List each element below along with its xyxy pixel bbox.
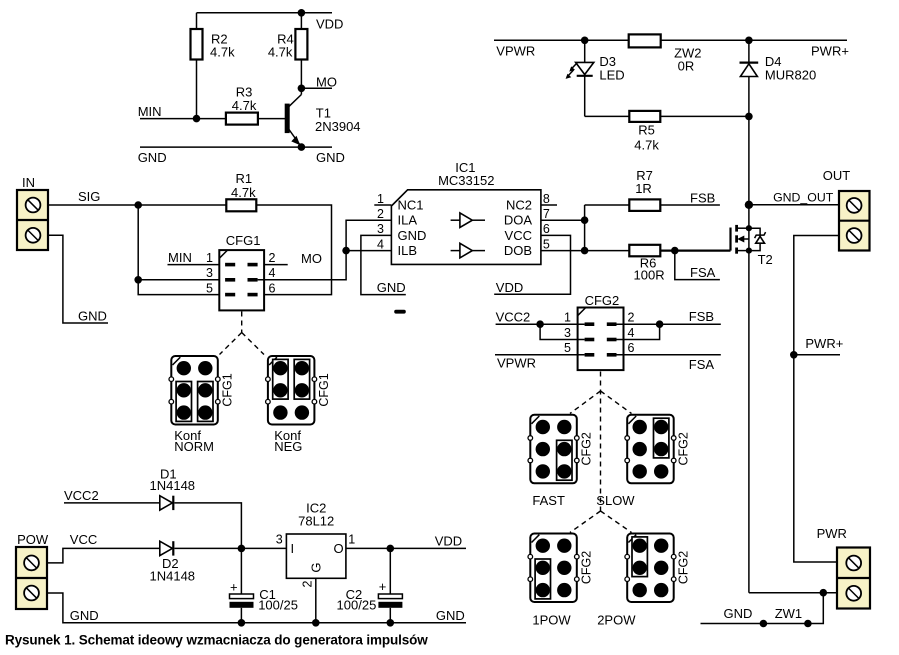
svg-text:1N4148: 1N4148	[150, 478, 196, 493]
svg-text:FSA: FSA	[689, 357, 715, 372]
svg-text:4.7k: 4.7k	[210, 45, 235, 60]
jumper diagram Konf NEG (CFG1)	[266, 356, 332, 425]
svg-text:CFG2: CFG2	[580, 551, 594, 584]
svg-text:CFG2: CFG2	[676, 551, 690, 584]
svg-text:FSA: FSA	[690, 265, 716, 280]
svg-text:CFG2: CFG2	[585, 293, 620, 308]
svg-text:0R: 0R	[678, 59, 695, 74]
pin CFG2 bars row1	[585, 322, 595, 326]
svg-text:MC33152: MC33152	[438, 173, 494, 188]
svg-text:1: 1	[564, 311, 571, 325]
svg-text:1R: 1R	[635, 181, 652, 196]
wire IN pin2 to GND stub	[48, 235, 108, 323]
resistor R6	[629, 245, 660, 256]
svg-text:78L12: 78L12	[298, 514, 334, 529]
connector IN	[17, 175, 48, 250]
node ILB junction	[342, 247, 350, 255]
wire dashed CFG2 selector upper	[600, 372, 602, 512]
jumper diagram 1POW (CFG2)	[528, 534, 594, 603]
svg-text:CFG2: CFG2	[580, 432, 594, 465]
node C1 junction	[238, 545, 246, 553]
wire R3 to base	[258, 118, 286, 120]
ground minus mark	[394, 310, 406, 314]
svg-text:VCC2: VCC2	[496, 310, 531, 325]
svg-text:4.7k: 4.7k	[232, 98, 257, 113]
jumper diagram SLOW (CFG2)	[625, 415, 691, 484]
svg-text:CFG1: CFG1	[317, 373, 331, 406]
svg-text:2: 2	[377, 207, 384, 221]
svg-text:PWR: PWR	[817, 526, 847, 541]
node ZW1 end A	[760, 620, 768, 628]
wire IC2 output VDD	[346, 547, 466, 549]
svg-text:DOB: DOB	[504, 243, 532, 258]
svg-text:VPWR: VPWR	[496, 44, 535, 59]
svg-text:G: G	[308, 562, 323, 572]
svg-text:6: 6	[269, 281, 276, 295]
node PWR- junction	[820, 589, 828, 597]
svg-text:DOA: DOA	[504, 213, 533, 228]
svg-text:5: 5	[206, 281, 213, 295]
pin CFG2 bars row2	[585, 338, 595, 342]
jumper diagram 2POW (CFG2)	[625, 534, 691, 603]
wire OUT pin2 PWR+	[794, 236, 839, 563]
svg-text:GND_OUT: GND_OUT	[773, 191, 834, 205]
svg-text:8: 8	[543, 192, 550, 206]
svg-text:MIN: MIN	[168, 250, 192, 265]
wire R5 row	[585, 115, 630, 117]
node PWR+ junction	[790, 351, 798, 359]
svg-text:4: 4	[269, 266, 276, 280]
wire D1 to C1 node	[175, 503, 242, 549]
wire R5 to D4	[660, 115, 749, 117]
wire FSB from pin2	[617, 323, 721, 325]
diode D4 MUR820	[740, 40, 817, 116]
node C2 gnd junction	[387, 619, 395, 627]
wire SIG row	[48, 204, 226, 206]
svg-text:NORM: NORM	[174, 439, 214, 454]
svg-text:2: 2	[269, 251, 276, 265]
svg-text:1N4148: 1N4148	[150, 568, 196, 583]
svg-text:ZW1: ZW1	[775, 606, 802, 621]
wire ZW1 gnd link	[701, 593, 824, 624]
regulator IC2 78L12	[286, 501, 346, 579]
op-amp IC1 body	[391, 190, 541, 265]
svg-text:2: 2	[301, 580, 315, 587]
connector POW	[16, 532, 49, 609]
resistor R4	[295, 29, 307, 60]
wire output join vertical	[584, 205, 586, 251]
diode D2 1N4148	[150, 541, 196, 583]
svg-text:NC2: NC2	[506, 197, 532, 212]
svg-text:4.7k: 4.7k	[231, 185, 256, 200]
wire to R7	[585, 204, 630, 206]
svg-text:GND: GND	[138, 150, 167, 165]
svg-text:FAST: FAST	[532, 493, 565, 508]
svg-text:CFG1: CFG1	[221, 373, 235, 406]
wire R1 out to CFG1 pin6	[256, 205, 331, 295]
svg-text:MIN: MIN	[138, 104, 162, 119]
svg-text:VCC: VCC	[70, 532, 97, 547]
resistor R5	[629, 111, 660, 122]
svg-text:+: +	[230, 580, 238, 595]
svg-text:SLOW: SLOW	[596, 493, 635, 508]
svg-text:Rysunek 1. Schemat ideowy wzma: Rysunek 1. Schemat ideowy wzmacniacza do…	[5, 633, 428, 648]
pin 1 stub	[374, 204, 391, 206]
pin CFG1 bars row2	[225, 278, 235, 282]
svg-text:2POW: 2POW	[597, 613, 636, 628]
buffer B	[451, 243, 485, 258]
wire POW pin2 to GND row	[47, 593, 466, 623]
jumper diagram Konf NORM (CFG1)	[169, 356, 235, 425]
pin 7 wire	[541, 219, 585, 221]
wire CFG1 pin4 to IC1 inputs	[258, 220, 392, 280]
svg-text:VDD: VDD	[316, 17, 343, 32]
svg-text:1: 1	[348, 533, 355, 547]
svg-text:6: 6	[543, 222, 550, 236]
wire MIN row	[140, 118, 226, 120]
connector PWR	[817, 526, 870, 609]
svg-text:CFG2: CFG2	[676, 432, 690, 465]
node SIG junction	[134, 201, 142, 209]
svg-text:GND: GND	[398, 228, 427, 243]
node junction R2/base	[193, 115, 201, 123]
wire T2 source to PWR pin2	[749, 592, 837, 594]
svg-text:T2: T2	[758, 252, 773, 267]
capacitor C2	[337, 548, 403, 622]
wire R6 to gate	[660, 250, 730, 252]
svg-text:VDD: VDD	[435, 533, 462, 548]
svg-text:GND: GND	[316, 150, 345, 165]
node ZW1 end B	[804, 620, 812, 628]
node GND_OUT junction	[745, 201, 753, 209]
wire IC2 ground pin	[315, 578, 317, 623]
svg-text:R5: R5	[638, 123, 655, 138]
svg-text:MO: MO	[301, 251, 322, 266]
svg-text:5: 5	[543, 237, 550, 251]
wire VCC2 branch pin3	[540, 324, 585, 339]
transistor T1	[285, 88, 361, 147]
svg-text:PWR+: PWR+	[805, 336, 843, 351]
node C1 gnd junction	[238, 619, 246, 627]
svg-text:4: 4	[628, 326, 635, 340]
svg-text:1POW: 1POW	[532, 613, 571, 628]
svg-text:FSB: FSB	[690, 190, 715, 205]
resistor R3	[226, 113, 258, 125]
svg-text:POW: POW	[17, 532, 49, 547]
pin 8 stub	[541, 204, 557, 206]
svg-text:2: 2	[628, 311, 635, 325]
pin 3 stub GND	[361, 235, 406, 294]
svg-text:FSB: FSB	[689, 309, 714, 324]
pin CFG1 bars row3	[225, 293, 235, 297]
wire FSA drop	[675, 251, 720, 280]
svg-text:O: O	[334, 541, 344, 556]
pin 6 wire VDD	[494, 235, 570, 294]
svg-text:SIG: SIG	[78, 189, 100, 204]
svg-text:5: 5	[564, 341, 571, 355]
node VCC2 junction	[536, 320, 544, 328]
node C2 junction	[387, 545, 395, 553]
svg-text:1: 1	[206, 251, 213, 265]
connector CFG1 body	[219, 250, 264, 310]
node DOB junction	[581, 247, 589, 255]
wire dashed CFG2 selector lower	[570, 511, 601, 533]
node FSB junction	[656, 320, 664, 328]
wire MIN to CFG1 pin1	[168, 264, 226, 266]
wire R2 top	[196, 13, 198, 29]
svg-text:4.7k: 4.7k	[634, 137, 659, 152]
svg-text:CFG1: CFG1	[226, 233, 261, 248]
svg-text:VCC: VCC	[505, 228, 532, 243]
node emitter junction	[298, 143, 306, 151]
svg-text:VCC2: VCC2	[64, 488, 99, 503]
pin CFG2 bars row3	[585, 353, 595, 357]
buffer A	[451, 213, 485, 228]
wire D2 to IC2 input	[175, 547, 287, 549]
svg-text:4: 4	[377, 237, 384, 251]
svg-text:ILA: ILA	[398, 213, 418, 228]
svg-text:2N3904: 2N3904	[315, 119, 361, 134]
wire CFG1 pin2 MO stub	[258, 264, 288, 266]
svg-text:MUR820: MUR820	[765, 68, 816, 83]
pin CFG1 bars row1	[225, 263, 235, 267]
node junction SIG/pin3	[134, 276, 142, 284]
node IC2 gnd junction	[312, 619, 320, 627]
svg-text:NEG: NEG	[274, 439, 302, 454]
resistor R2	[191, 29, 203, 60]
wire SIG branch vertical	[138, 205, 225, 295]
wire GND rail top-left	[140, 146, 332, 148]
svg-text:100/25: 100/25	[258, 597, 298, 612]
wire R2 bottom	[196, 60, 198, 119]
svg-text:+: +	[379, 579, 387, 594]
svg-text:VDD: VDD	[496, 280, 523, 295]
wire PWR+ stub	[794, 354, 840, 356]
svg-text:PWR+: PWR+	[811, 44, 849, 59]
wire R4 bottom	[300, 60, 302, 89]
resistor ZW2	[629, 34, 661, 47]
jumper diagram FAST (CFG2)	[528, 415, 594, 484]
svg-text:MO: MO	[316, 75, 337, 90]
node gate junction	[671, 247, 679, 255]
svg-text:1: 1	[377, 192, 384, 206]
connector OUT	[823, 168, 870, 250]
svg-text:OUT: OUT	[823, 168, 851, 183]
wire dashed CFG1 selector	[241, 312, 243, 333]
transistor T2	[731, 205, 773, 593]
diode D3 LED	[566, 40, 625, 116]
wire down to T2 drain	[748, 116, 750, 204]
svg-text:GND: GND	[78, 309, 107, 324]
svg-text:GND: GND	[436, 608, 465, 623]
wire FSB branch pin4	[617, 324, 660, 339]
svg-text:3: 3	[377, 222, 384, 236]
wire VDD rail top	[197, 12, 333, 14]
svg-text:LED: LED	[599, 68, 624, 83]
resistor R1	[226, 199, 256, 211]
resistor R7	[629, 199, 660, 211]
node D4 junction	[745, 37, 753, 45]
capacitor C1	[230, 548, 298, 622]
svg-text:6: 6	[628, 341, 635, 355]
wire POW pin1 to VCC row	[47, 548, 160, 563]
pin 5 wire	[541, 250, 629, 252]
svg-text:3: 3	[564, 326, 571, 340]
wire R7 to FSB	[660, 204, 720, 206]
svg-text:NC1: NC1	[398, 197, 424, 212]
diode D1 1N4148	[150, 467, 196, 511]
wire VPWR row pin5	[495, 354, 585, 356]
node R5/D4 junction	[745, 113, 753, 121]
wire FSA row pin6	[617, 354, 721, 356]
svg-text:100R: 100R	[634, 267, 665, 282]
connector CFG2 body	[578, 308, 624, 371]
node VDD junction	[298, 9, 306, 17]
svg-text:4.7k: 4.7k	[268, 45, 293, 60]
wire ILB stub	[346, 250, 391, 252]
svg-text:GND: GND	[70, 608, 99, 623]
svg-text:7: 7	[543, 207, 550, 221]
wire VCC2 row	[64, 502, 160, 504]
wire VCC2 to pin1	[496, 323, 585, 325]
wire GND_OUT	[749, 204, 839, 206]
svg-text:100/25: 100/25	[337, 597, 377, 612]
node D3 junction	[581, 37, 589, 45]
svg-text:3: 3	[276, 533, 283, 547]
wire VPWR rail	[494, 39, 847, 41]
svg-text:GND: GND	[377, 280, 406, 295]
wire MO stub	[301, 87, 332, 89]
node MO junction	[298, 85, 306, 93]
svg-text:GND: GND	[724, 606, 753, 621]
svg-text:ILB: ILB	[398, 243, 418, 258]
svg-text:I: I	[291, 541, 295, 556]
node DOA junction	[581, 216, 589, 224]
wire to CFG1 pin3	[138, 279, 225, 281]
svg-text:VPWR: VPWR	[497, 356, 536, 371]
svg-text:3: 3	[206, 266, 213, 280]
wire R4 top	[300, 13, 302, 29]
svg-text:IN: IN	[22, 175, 35, 190]
